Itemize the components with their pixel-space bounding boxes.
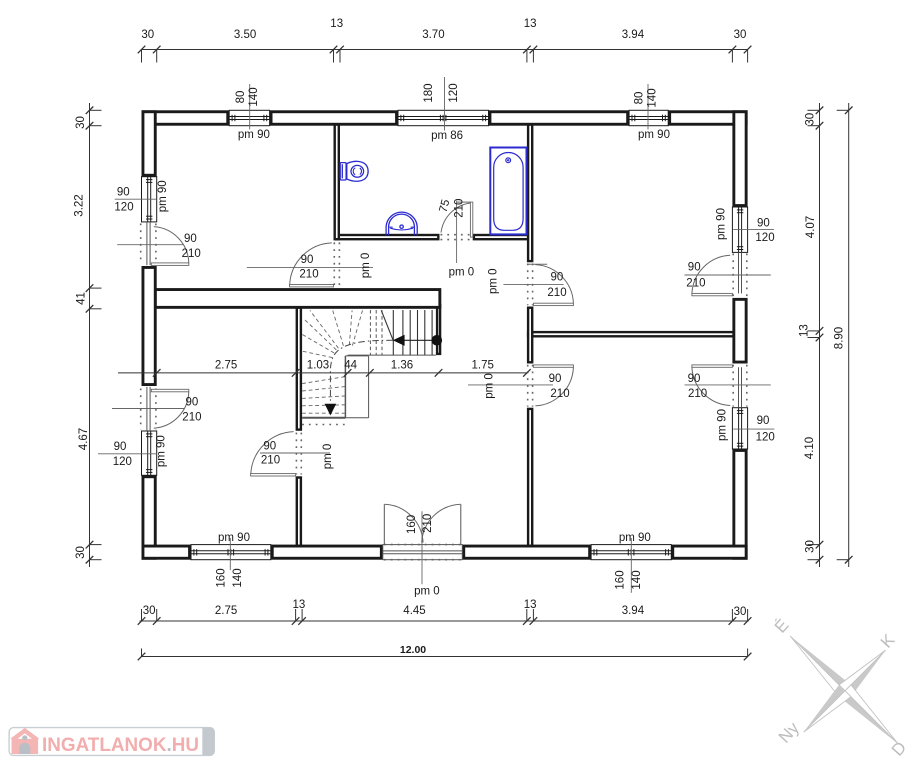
svg-text:210: 210 — [182, 412, 201, 424]
svg-text:pm 90: pm 90 — [619, 532, 651, 544]
svg-text:INGATLANOK.HU: INGATLANOK.HU — [42, 735, 199, 756]
svg-text:30: 30 — [75, 116, 87, 129]
wall: bottom wall between S2 and S3 — [462, 545, 591, 560]
wall: bottom wall left segment — [142, 545, 192, 560]
svg-text:210: 210 — [182, 248, 201, 260]
svg-text:210: 210 — [686, 278, 705, 290]
wall: bathroom bottom wall right part — [473, 234, 532, 241]
svg-text:pm 90: pm 90 — [716, 409, 728, 441]
INGATLANOK.HU watermark logo — [9, 728, 214, 756]
wall: right wall top segment — [732, 110, 747, 207]
wall: divider wall between right rooms — [527, 331, 738, 338]
svg-text:1.75: 1.75 — [472, 360, 494, 372]
window LW1 90/120 in left wall — [142, 177, 157, 222]
svg-text:90: 90 — [186, 397, 199, 409]
svg-text:pm 0: pm 0 — [360, 253, 372, 279]
window S3 160/140 in bottom wall — [591, 545, 671, 560]
svg-text:160: 160 — [615, 570, 627, 589]
svg-text:90: 90 — [549, 373, 562, 385]
wall: bathroom bottom wall left part — [335, 234, 440, 241]
bathroom door 75/210 in bathroom bottom wall — [441, 202, 473, 240]
door CD 90/210 in wall C to NW room — [290, 242, 340, 287]
dimension chains (top, bottom, overall, internal, left, right) — [86, 46, 853, 661]
svg-text:pm 90: pm 90 — [638, 129, 670, 141]
window W3 80/140 in top wall — [629, 110, 668, 125]
svg-text:160: 160 — [216, 568, 228, 587]
wall: wall A lower segment — [296, 476, 303, 549]
svg-text:140: 140 — [248, 87, 260, 106]
wall: left wall middle segment — [142, 266, 157, 386]
svg-text:4.10: 4.10 — [804, 437, 816, 459]
window RW1 90/120 in right wall — [732, 207, 747, 252]
wash basin in bathroom — [386, 212, 417, 235]
svg-text:90: 90 — [263, 441, 276, 453]
svg-text:210: 210 — [550, 388, 569, 400]
svg-text:pm 0: pm 0 — [322, 444, 334, 470]
window S1 160/140 in bottom wall — [191, 545, 271, 560]
door BD2 90/210 in wall B to SE room — [528, 365, 574, 407]
svg-text:3.94: 3.94 — [622, 605, 645, 617]
wall: right wall bottom segment — [732, 449, 747, 560]
wall: top wall right segment — [668, 110, 747, 125]
svg-text:12.00: 12.00 — [400, 644, 426, 656]
svg-text:4.45: 4.45 — [403, 605, 425, 617]
svg-text:pm 0: pm 0 — [449, 267, 475, 279]
svg-text:3.22: 3.22 — [74, 194, 86, 216]
svg-text:90: 90 — [757, 415, 770, 427]
svg-text:3.50: 3.50 — [234, 29, 256, 41]
wall: top wall between W1 and W2 — [270, 110, 398, 125]
wall: top wall left segment — [142, 110, 230, 125]
svg-text:90: 90 — [117, 187, 130, 199]
svg-text:80: 80 — [633, 92, 645, 105]
wall: wall B upper segment — [527, 118, 534, 262]
svg-text:13: 13 — [330, 18, 343, 30]
wall: bottom wall between S1 and S2 — [271, 545, 383, 560]
wall: hall wall 41cm — [152, 288, 442, 309]
svg-text:120: 120 — [448, 83, 460, 102]
wall: wall C bathroom left partition — [334, 118, 341, 240]
window RW2 90/120 in right wall — [732, 408, 747, 449]
svg-text:13: 13 — [293, 599, 306, 611]
svg-text:140: 140 — [647, 88, 659, 107]
svg-text:90: 90 — [688, 373, 701, 385]
staircase with winders, walking line, up/down arrows — [301, 310, 442, 425]
svg-text:120: 120 — [755, 232, 774, 244]
window W1 80/140 in top wall — [229, 110, 269, 125]
svg-text:pm 90: pm 90 — [715, 208, 727, 240]
wall: right wall middle segment — [732, 298, 747, 364]
svg-text:90: 90 — [114, 441, 127, 453]
door RD1 90/210 in right wall upper — [692, 252, 747, 296]
double French door S2 160/210 in bottom wall — [383, 504, 463, 559]
svg-text:30: 30 — [141, 29, 154, 41]
svg-text:160: 160 — [406, 515, 418, 534]
svg-text:90: 90 — [757, 218, 770, 230]
svg-text:210: 210 — [688, 388, 707, 400]
dimension and opening labels — [74, 18, 846, 656]
svg-text:pm 90: pm 90 — [156, 435, 168, 467]
svg-text:120: 120 — [114, 202, 133, 214]
compass rose with É K D Ny — [749, 595, 919, 768]
door BD1 90/210 in wall B to NE room — [528, 264, 574, 306]
wall: wall B lower segment — [527, 408, 534, 550]
wall: top wall between W2 and W3 — [489, 110, 630, 125]
svg-text:30: 30 — [143, 605, 156, 617]
svg-text:210: 210 — [547, 287, 566, 299]
svg-text:3.94: 3.94 — [622, 29, 645, 41]
svg-text:120: 120 — [113, 456, 132, 468]
svg-text:30: 30 — [805, 540, 817, 553]
svg-text:210: 210 — [422, 514, 434, 533]
svg-text:30: 30 — [734, 606, 747, 618]
wall: wall B middle segment — [527, 307, 534, 364]
door LD2 90/210 in left wall lower — [141, 387, 189, 431]
svg-text:pm 90: pm 90 — [238, 129, 270, 141]
svg-text:180: 180 — [423, 83, 435, 102]
leader lines for window and door labels — [98, 77, 774, 593]
svg-text:120: 120 — [756, 432, 775, 444]
svg-text:44: 44 — [344, 360, 357, 372]
svg-text:210: 210 — [261, 455, 280, 467]
svg-text:1.36: 1.36 — [391, 360, 413, 372]
svg-text:13: 13 — [524, 18, 537, 30]
bathtub in bathroom — [490, 148, 526, 235]
svg-text:3.70: 3.70 — [422, 29, 444, 41]
svg-text:30: 30 — [75, 546, 87, 559]
door RD2 90/210 in right wall lower — [692, 365, 747, 408]
door LD1 90/210 in left wall upper — [141, 222, 189, 266]
svg-text:13: 13 — [799, 324, 811, 337]
svg-text:210: 210 — [299, 269, 318, 281]
door AD 90/210 in wall A — [251, 432, 302, 476]
svg-text:90: 90 — [551, 272, 564, 284]
wall: left wall bottom segment — [142, 475, 157, 559]
svg-text:4.07: 4.07 — [805, 216, 817, 238]
svg-text:pm 0: pm 0 — [487, 268, 499, 294]
wall: left wall top segment — [142, 110, 157, 176]
svg-text:80: 80 — [235, 91, 247, 104]
svg-text:140: 140 — [631, 570, 643, 589]
svg-text:41: 41 — [76, 292, 88, 305]
svg-text:8.90: 8.90 — [834, 327, 846, 349]
wall: stair stub wall — [436, 304, 441, 355]
svg-text:2.75: 2.75 — [215, 360, 237, 372]
svg-text:90: 90 — [301, 254, 314, 266]
svg-text:pm 90: pm 90 — [218, 532, 250, 544]
svg-text:90: 90 — [688, 262, 701, 274]
svg-text:pm 0: pm 0 — [414, 586, 440, 598]
toilet (WC) in bathroom — [340, 161, 368, 181]
svg-text:1.03: 1.03 — [307, 360, 329, 372]
svg-text:30: 30 — [805, 113, 817, 126]
svg-text:2.75: 2.75 — [215, 605, 237, 617]
window W2 180/120 in top wall — [398, 110, 489, 125]
svg-text:pm 86: pm 86 — [431, 130, 463, 142]
svg-text:90: 90 — [184, 233, 197, 245]
window LW2 90/120 in left wall — [142, 431, 157, 475]
svg-text:4.67: 4.67 — [78, 428, 90, 450]
svg-text:30: 30 — [734, 29, 747, 41]
svg-text:210: 210 — [454, 199, 466, 218]
svg-text:pm 0: pm 0 — [484, 373, 496, 399]
svg-text:pm 90: pm 90 — [157, 180, 169, 212]
wall: wall A upper segment — [296, 304, 303, 431]
svg-text:140: 140 — [232, 568, 244, 587]
svg-text:13: 13 — [524, 599, 537, 611]
wall: bottom wall right segment — [671, 545, 747, 560]
